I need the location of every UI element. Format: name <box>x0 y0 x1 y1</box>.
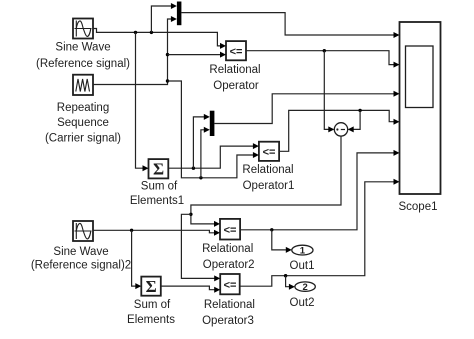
wire Relational Operator1 output to Scope1 in4 <box>279 110 399 151</box>
junction sine line to Mux1 <box>150 31 153 34</box>
block Relational Operator <box>226 41 246 60</box>
wire sine line up to Mux1 in1 <box>151 3 177 32</box>
svg-text:Operator3: Operator3 <box>202 315 254 327</box>
block Sum of Elements1 <box>149 159 169 178</box>
junction circle output to Relational Operator3 branch <box>189 213 192 216</box>
block Sine Wave 2 (source) <box>73 221 93 241</box>
label Repeating Sequence (Carrier signal) <box>45 102 121 145</box>
wire sine1 output to Relational Operator in1 <box>93 29 226 49</box>
label Sum of Elements <box>127 299 175 326</box>
svg-text:Elements1: Elements1 <box>130 195 184 207</box>
wire Repeating Sequence output up to Mux1 in2 <box>93 16 177 85</box>
svg-text:Σ: Σ <box>153 160 164 179</box>
wire sine2 output to Relational Operator2 in2 <box>93 230 220 236</box>
wire Mux2 output to Scope1 in3 <box>214 91 399 124</box>
wire comparator branch down to Sum circle left input <box>324 51 334 133</box>
svg-text:Repeating: Repeating <box>57 102 109 114</box>
svg-text:Operator1: Operator1 <box>243 180 295 192</box>
wire branch down to Sum circle right input <box>348 110 360 132</box>
svg-text:(Reference signal)2: (Reference signal)2 <box>31 259 131 271</box>
junction comparator3 line to Out2 <box>284 274 287 277</box>
svg-text:Elements: Elements <box>127 314 175 326</box>
junction comparator1 line to Sum circle right input <box>358 109 361 112</box>
label Sum of Elements1 <box>130 181 184 208</box>
wire Relational Operator output to Scope1 in2 <box>246 51 400 68</box>
block Mux1 <box>177 2 182 26</box>
junction sine2 line to Sum of Elements <box>130 229 133 232</box>
block Mux2 <box>210 111 215 136</box>
label Relational Operator1 <box>242 164 294 192</box>
svg-text:Out2: Out2 <box>290 297 315 309</box>
label Relational Operator2 <box>202 243 254 271</box>
label Out1 <box>290 260 315 272</box>
svg-text:Scope1: Scope1 <box>398 201 437 213</box>
wire sine line down to Sum of Elements1 <box>136 32 149 171</box>
junction comparator2 output to Out1 <box>270 228 273 231</box>
wire Sum of Elements output to Relational Operator3 in2 <box>161 286 220 293</box>
block Sum (round, +-) <box>334 123 347 136</box>
wire Sum circle output to Relational Operator2 in1 <box>191 136 341 227</box>
svg-text:Sum of: Sum of <box>134 299 171 311</box>
block Sum of Elements <box>141 277 161 296</box>
svg-text:Sequence: Sequence <box>57 117 109 129</box>
svg-text:Out1: Out1 <box>290 260 315 272</box>
svg-text:2: 2 <box>302 282 307 293</box>
svg-text:Σ: Σ <box>146 277 157 296</box>
svg-text:(Carrier signal): (Carrier signal) <box>45 133 121 145</box>
junction comparator output to Sum circle <box>323 49 326 52</box>
svg-text:<=: <= <box>230 46 243 58</box>
wire carrier branch up to Mux2 in2 <box>201 127 210 178</box>
block Out2 (outport) <box>295 282 315 293</box>
junction carrier to right branch <box>166 79 169 82</box>
label Relational Operator <box>209 64 260 92</box>
svg-text:1: 1 <box>300 246 306 257</box>
wire Relational Operator2 output to Scope1 in5 <box>240 150 399 230</box>
wire branch down to Out2 <box>286 276 295 290</box>
block Relational Operator2 <box>220 219 240 240</box>
svg-text:<=: <= <box>263 146 276 158</box>
svg-text:Relational: Relational <box>202 243 253 255</box>
junction carrier branch to Mux2 in2 <box>199 176 202 179</box>
wire Relational Operator3 output to Scope1 in6 <box>240 179 400 286</box>
svg-text:Operator: Operator <box>213 80 259 92</box>
svg-text:Operator2: Operator2 <box>203 259 255 271</box>
wire Mux1 output to Scope1 in1 <box>181 13 399 38</box>
wire carrier branch down to Relational Operator1 in2 <box>168 81 259 178</box>
svg-text:Sine Wave: Sine Wave <box>55 42 110 54</box>
svg-text:Relational: Relational <box>209 64 260 76</box>
wire branch down to Out1 <box>272 230 292 253</box>
block Relational Operator1 <box>259 142 279 161</box>
wire sine2 branch down to Sum of Elements <box>132 230 142 289</box>
svg-text:Relational: Relational <box>204 299 255 311</box>
block Sine Wave (source) <box>73 19 93 39</box>
svg-text:<=: <= <box>224 279 237 291</box>
block Out1 (outport) <box>292 245 313 256</box>
label Out2 <box>290 297 315 309</box>
block Scope1 <box>400 22 441 194</box>
label Sine Wave (Reference signal)2 <box>31 246 131 271</box>
label Sine Wave <box>36 42 130 71</box>
svg-text:(Reference signal): (Reference signal) <box>36 58 130 70</box>
junction sum1 output to Mux2 in1 <box>192 167 195 170</box>
svg-text:Relational: Relational <box>242 164 293 176</box>
wire branch to Relational Operator3 in1 <box>181 214 220 281</box>
label Scope1 <box>398 201 437 213</box>
svg-text:<=: <= <box>224 224 237 236</box>
svg-text:Sine Wave: Sine Wave <box>53 246 108 258</box>
wire Sum of Elements1 branch up to Mux2 in1 <box>193 114 209 168</box>
wire carrier to Relational Operator in2 <box>168 52 227 58</box>
block Relational Operator3 <box>220 274 240 294</box>
wire Sum of Elements1 output to Relational Operator1 in1 <box>168 143 259 168</box>
junction carrier to Relational Operator in2 <box>166 53 169 56</box>
junction sine line to Sum of Elements1 <box>134 31 137 34</box>
label Relational Operator3 <box>202 299 255 327</box>
svg-text:Sum of: Sum of <box>141 181 178 193</box>
block Repeating Sequence <box>73 75 93 95</box>
